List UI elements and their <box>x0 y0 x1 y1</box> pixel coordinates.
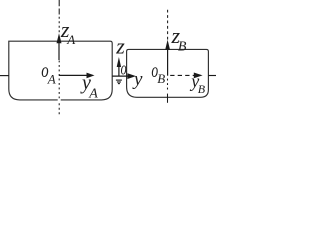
intermediate axis z arrow <box>118 66 120 76</box>
centerline of section B crossing bottom edge (dash) <box>167 94 169 103</box>
svg-text:y: y <box>132 69 143 90</box>
svg-text:o: o <box>121 59 127 80</box>
svg-text:B: B <box>157 71 165 86</box>
axis y_A arrow <box>59 74 88 76</box>
section A outline <box>9 41 112 100</box>
axis z_A arrow <box>58 43 60 60</box>
section B outline <box>127 49 209 97</box>
ground symbol under intermediate origin <box>116 79 122 81</box>
svg-text:B: B <box>178 40 187 55</box>
centerline tick left of section A <box>0 75 9 77</box>
centerline of section A below box (dotted) <box>58 103 60 115</box>
centerline of section A (dash-dot) <box>58 0 60 15</box>
centerline of section B above box (dashed) <box>167 9 169 41</box>
svg-text:z: z <box>115 33 125 58</box>
centerline of section A upper dotted part <box>58 17 60 33</box>
centerline tick right of section B <box>208 75 216 77</box>
svg-text:A: A <box>47 71 56 86</box>
svg-text:A: A <box>66 32 75 47</box>
white break in section A bottom edge at centerline crossing <box>58 99 61 101</box>
axis z_B arrow <box>167 49 169 76</box>
axis y_B arrow (dashed) <box>168 74 195 76</box>
svg-text:A: A <box>88 87 98 102</box>
svg-text:B: B <box>198 82 206 96</box>
centerline of section B below o_B (dotted) <box>167 79 169 91</box>
centerline of section A lower dotted part <box>58 61 60 99</box>
intermediate axis y arrow <box>112 75 129 77</box>
